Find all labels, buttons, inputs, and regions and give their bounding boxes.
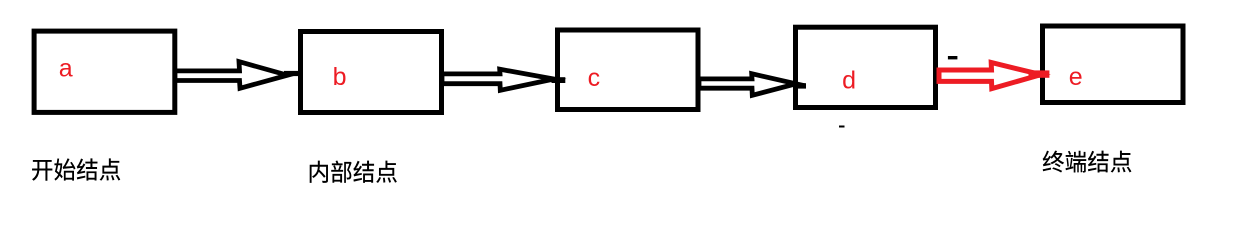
stray dash below box d bbox=[839, 126, 845, 128]
svg-text:d: d bbox=[842, 67, 856, 95]
stray dash above red arrow bbox=[948, 56, 958, 59]
caption terminal node bbox=[1043, 151, 1132, 173]
red arrow d-e tip blob bbox=[1029, 70, 1050, 77]
node box a bbox=[34, 31, 175, 112]
caption start node bbox=[32, 158, 120, 180]
arrow a-b tip blob bbox=[284, 71, 298, 76]
arrow a to b bbox=[175, 62, 288, 89]
caption internal node bbox=[310, 160, 397, 182]
node box d bbox=[796, 27, 936, 107]
svg-text:a: a bbox=[59, 54, 73, 82]
svg-text:c: c bbox=[588, 64, 601, 92]
arrow b to c bbox=[442, 69, 554, 90]
arrow b-c tip blob bbox=[552, 77, 566, 83]
node box e bbox=[1043, 26, 1184, 103]
arrow c to d bbox=[699, 74, 796, 96]
arrow c-d tip blob bbox=[794, 83, 806, 88]
node box c bbox=[558, 30, 699, 110]
svg-text:e: e bbox=[1069, 63, 1083, 91]
svg-text:b: b bbox=[333, 63, 347, 91]
red arrow d to e bbox=[939, 63, 1041, 89]
node box b bbox=[301, 32, 442, 113]
